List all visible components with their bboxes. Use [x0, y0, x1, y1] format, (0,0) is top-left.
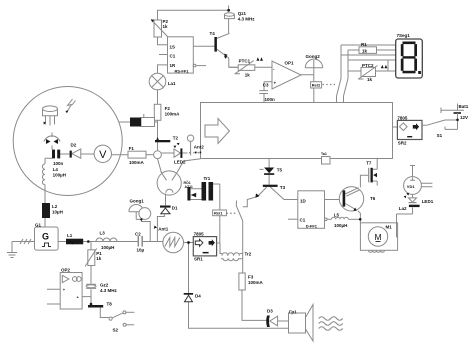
svg-text:PTC2: PTC2 [362, 63, 374, 68]
svg-text:100n: 100n [265, 97, 276, 102]
svg-text:L2: L2 [52, 204, 58, 209]
svg-text:Ant2: Ant2 [194, 145, 204, 150]
svg-text:AZ11: AZ11 [185, 185, 193, 189]
svg-text:M: M [374, 232, 381, 242]
svg-text:100n: 100n [53, 161, 64, 166]
svg-text:Rel1: Rel1 [214, 211, 223, 216]
svg-text:1R: 1R [170, 63, 177, 68]
svg-text:Ant1: Ant1 [158, 227, 168, 232]
svg-text:10µ: 10µ [137, 248, 145, 253]
svg-text:4.3 MHz: 4.3 MHz [100, 288, 118, 293]
svg-text:S2: S2 [113, 328, 119, 333]
svg-text:Bat1: Bat1 [459, 104, 469, 109]
svg-text:10µH: 10µH [68, 240, 78, 245]
svg-text:T4: T4 [210, 31, 216, 36]
svg-text:OP1: OP1 [285, 61, 295, 66]
svg-text:12V: 12V [460, 115, 468, 120]
svg-text:C1: C1 [300, 218, 306, 223]
svg-text:LED1: LED1 [422, 199, 434, 204]
svg-text:L3: L3 [100, 231, 106, 236]
svg-text:1k: 1k [362, 49, 368, 54]
svg-text:100µH: 100µH [101, 245, 114, 250]
svg-text:D2: D2 [71, 143, 77, 148]
svg-text:G: G [42, 232, 49, 242]
svg-text:La1: La1 [168, 81, 176, 86]
svg-text:Tr1: Tr1 [204, 176, 211, 181]
svg-text:T7: T7 [366, 161, 372, 166]
svg-text:L1: L1 [67, 233, 73, 238]
svg-text:S1: S1 [437, 133, 443, 138]
svg-text:Rel2: Rel2 [312, 83, 321, 88]
svg-text:F2: F2 [165, 106, 171, 111]
svg-text:1D: 1D [300, 198, 307, 203]
svg-text:4.3 MHz: 4.3 MHz [238, 17, 256, 22]
svg-text:Gong2: Gong2 [306, 54, 321, 59]
svg-text:LED2: LED2 [174, 160, 186, 165]
svg-text:Tr2: Tr2 [245, 252, 252, 257]
svg-text:+: + [274, 81, 277, 86]
svg-text:SR2: SR2 [398, 140, 407, 145]
svg-text:F1: F1 [129, 146, 135, 151]
svg-text:La2: La2 [399, 206, 407, 211]
svg-text:100µH: 100µH [53, 173, 66, 178]
svg-text:Гр1: Гр1 [289, 310, 297, 315]
svg-text:Gong1: Gong1 [130, 199, 145, 204]
svg-text:C2: C2 [135, 232, 141, 237]
svg-text:T3: T3 [280, 185, 286, 190]
svg-text:L4: L4 [53, 167, 59, 172]
svg-text:G1: G1 [35, 223, 42, 228]
svg-text:RS-FF1: RS-FF1 [175, 68, 190, 73]
svg-text:1k: 1k [245, 72, 251, 77]
svg-text:D3: D3 [267, 309, 273, 314]
svg-text:7805: 7805 [397, 115, 408, 120]
svg-text:Ta1: Ta1 [321, 152, 327, 156]
svg-text:100mA: 100mA [248, 280, 264, 285]
svg-text:10µH: 10µH [52, 210, 63, 215]
svg-text:SR1: SR1 [194, 257, 203, 262]
svg-text:T8: T8 [107, 302, 113, 307]
svg-text:Gz2: Gz2 [100, 283, 109, 288]
svg-text:D4: D4 [195, 294, 201, 299]
svg-text:L5: L5 [334, 213, 340, 218]
svg-text:F3: F3 [248, 275, 254, 280]
svg-text:T5: T5 [277, 167, 283, 172]
svg-text:1k: 1k [96, 256, 102, 261]
svg-text:R1: R1 [361, 42, 367, 47]
svg-text:OP2: OP2 [61, 268, 71, 273]
svg-text:7805: 7805 [194, 232, 205, 237]
svg-text:100µH: 100µH [334, 223, 347, 228]
svg-text:T2: T2 [173, 136, 179, 141]
svg-text:7Seg1: 7Seg1 [397, 33, 411, 38]
svg-text:1k: 1k [367, 77, 373, 82]
svg-text:100mA: 100mA [165, 112, 181, 117]
svg-text:T6: T6 [370, 196, 376, 201]
svg-text:D1: D1 [172, 206, 178, 211]
svg-text:V: V [99, 149, 107, 161]
svg-text:100mA: 100mA [129, 160, 145, 165]
svg-text:M1: M1 [386, 225, 393, 230]
svg-text:C1: C1 [170, 54, 176, 59]
svg-text:VD1: VD1 [407, 184, 416, 189]
svg-text:1S: 1S [170, 45, 176, 50]
svg-text:PTC1: PTC1 [239, 58, 251, 63]
svg-text:C3: C3 [263, 83, 269, 88]
svg-text:D-FF1: D-FF1 [306, 224, 318, 229]
svg-text:Qz1: Qz1 [238, 11, 247, 16]
svg-text:1k: 1k [163, 24, 169, 29]
